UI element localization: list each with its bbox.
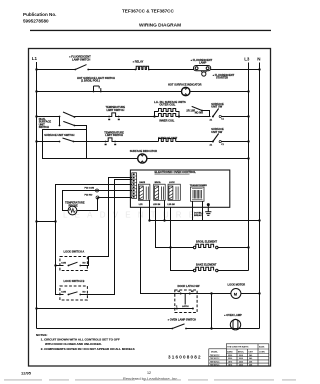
dual surface unit switch blade 2 (63, 121, 74, 125)
fluorescent starter (202, 72, 206, 76)
wire lock motor to N (241, 293, 260, 295)
lock switch B box (60, 286, 88, 300)
EOC relay 3 lock motor (168, 184, 180, 200)
svg-text:HOT SURFACE INDICATOR: HOT SURFACE INDICATOR (168, 82, 202, 86)
svg-text:240: 240 (249, 357, 252, 360)
wire EOC output broil feed (156, 207, 195, 247)
fluorescent lamp (194, 66, 211, 73)
temperature probe sensor (68, 206, 77, 215)
svg-text:5995278580: 5995278580 (23, 19, 49, 24)
svg-text:LOCK SWITCH A: LOCK SWITCH A (64, 249, 85, 253)
lock switch B blade (68, 292, 77, 295)
wire L1 tap (37, 221, 56, 223)
svg-text:LOCK SWITCH B: LOCK SWITCH B (64, 279, 85, 283)
svg-text:TEF367CC: TEF367CC (210, 355, 220, 357)
EOC relay 1 bake (138, 184, 150, 200)
svg-text:LOCK MOTOR: LOCK MOTOR (228, 283, 246, 287)
EOC transformer (191, 187, 205, 201)
spec table text (210, 345, 265, 366)
svg-text:2250: 2250 (239, 365, 243, 367)
svg-text:TRANSFORMER: TRANSFORMER (190, 184, 207, 187)
svg-text:Publication No.: Publication No. (23, 12, 56, 17)
svg-text:ELEM.: ELEM. (259, 346, 265, 348)
svg-text:COM: COM (61, 292, 66, 294)
neutral return wire (149, 220, 260, 222)
svg-text:2. COMPONENTS NOTED IN □ DO N: 2. COMPONENTS NOTED IN □ DO NOT APPEAR O… (41, 347, 135, 351)
svg-text:INNER COIL: INNER COIL (159, 118, 174, 122)
svg-text:UNIT SW: UNIT SW (211, 105, 223, 109)
svg-text:WIRING DIAGRAM: WIRING DIAGRAM (139, 23, 181, 29)
wire EOC output to door latch (141, 207, 180, 293)
chassis ground (205, 204, 211, 216)
svg-text:1. CIRCUIT SHOWN WITH ALL CON: 1. CIRCUIT SHOWN WITH ALL CONTROLS SET T… (41, 338, 120, 342)
svg-text:2500: 2500 (228, 355, 232, 357)
hot surface indicator (182, 87, 190, 95)
door latch switch bar (179, 294, 191, 305)
svg-text:208: 208 (249, 365, 252, 367)
wire probe feed from L1 tap (56, 185, 132, 222)
svg-text:(1 BROIL POS.): (1 BROIL POS.) (81, 79, 100, 83)
L1 bus wire (36, 62, 38, 329)
wire row2 right to L3 (190, 91, 248, 93)
svg-text:LAMP: LAMP (199, 60, 207, 64)
header rule (30, 30, 271, 31)
svg-text:WITH DOOR CLOSED AND UNLOCKED.: WITH DOOR CLOSED AND UNLOCKED. (45, 342, 102, 346)
surface unit switch row4 (63, 138, 106, 142)
surface unit switch box left (43, 130, 87, 159)
svg-text:SURFACE UNIT SWITCH: SURFACE UNIT SWITCH (44, 133, 74, 137)
svg-text:2250: 2250 (239, 361, 243, 363)
svg-text:240: 240 (249, 354, 252, 357)
bake element (193, 267, 248, 271)
transformer secondary drops (193, 201, 203, 220)
svg-text:N: N (257, 57, 260, 62)
svg-text:SURFACE UNIT: SURFACE UNIT (158, 136, 178, 140)
lock switch A box (60, 257, 88, 271)
svg-text:THE OVEN HTR WATTS: THE OVEN HTR WATTS (227, 345, 249, 348)
svg-text:SWITCH: SWITCH (39, 125, 49, 129)
svg-text:MODEL: MODEL (211, 351, 219, 353)
hot surface light switch (94, 86, 101, 92)
wire EOC output neutral 2 (164, 200, 166, 220)
svg-text:BAKE ELEMENT: BAKE ELEMENT (196, 263, 217, 267)
oven lamp switch (172, 324, 259, 329)
wire row5 right to L3 (147, 158, 248, 160)
temperature limit switch row4 (105, 138, 117, 145)
wire EOC output bake feed (171, 207, 195, 270)
svg-text:1875: 1875 (228, 361, 232, 363)
svg-text:L1: L1 (32, 56, 38, 61)
temperature limit switch row3 (108, 113, 120, 120)
svg-text:316008082: 316008082 (168, 355, 202, 360)
svg-text:BROIL: BROIL (238, 352, 245, 354)
svg-text:ELECTRONIC OVEN CONTROL: ELECTRONIC OVEN CONTROL (155, 170, 197, 174)
oven lamp (230, 319, 240, 330)
wire EOC output neutral 1 (149, 200, 151, 220)
wire EOC input A from lock switch A (80, 178, 132, 266)
surface unit switch row3 right (213, 109, 249, 117)
svg-text:2500: 2500 (228, 358, 232, 360)
svg-text:BAKE: BAKE (139, 181, 145, 184)
bus A door latch feed (37, 308, 193, 310)
svg-text:208: 208 (249, 361, 252, 363)
svg-text:L3: L3 (244, 57, 250, 62)
svg-text:L1R: L1R (139, 204, 143, 206)
svg-text:3000: 3000 (239, 358, 243, 360)
surface unit switch row4 right (213, 134, 249, 142)
svg-text:LEADVENTURE: LEADVENTURE (63, 211, 201, 220)
wire row1 right to N (211, 69, 260, 71)
svg-text:UNIT SW: UNIT SW (211, 130, 223, 134)
relay R coil (135, 66, 193, 69)
svg-text:DOOR LATCH SW: DOOR LATCH SW (178, 284, 201, 288)
svg-text:NO NR: NO NR (195, 111, 203, 115)
coil selector switch row3 (192, 106, 210, 116)
svg-text:TEF387CC: TEF387CC (210, 365, 220, 367)
notes text (36, 333, 135, 351)
svg-text:CONN: CONN (259, 352, 265, 354)
wire row3 left (37, 116, 60, 118)
footer rule (4, 379, 296, 381)
surface unit inner coil row3 (159, 114, 211, 117)
surface unit outer coil row3 (155, 109, 180, 117)
wire surface indicator tap (75, 126, 87, 159)
svg-text:1875: 1875 (228, 365, 232, 367)
EOC relay 2 broil (154, 184, 166, 200)
svg-text:3000: 3000 (239, 355, 243, 357)
svg-text:BROIL ELEMENT: BROIL ELEMENT (196, 239, 218, 243)
svg-text:12/95: 12/95 (21, 371, 32, 376)
svg-text:LAMP SWITCH: LAMP SWITCH (72, 57, 90, 61)
wire row5 surface indicator feed (87, 158, 138, 160)
electronic oven control box (130, 170, 229, 207)
svg-text:SURFACE INDICATOR: SURFACE INDICATOR (130, 149, 157, 153)
wire EOC input B from lock switch B (80, 180, 132, 295)
probe terminals (96, 189, 100, 199)
svg-text:NOTES:: NOTES: (36, 333, 47, 337)
lock switch A blade (68, 262, 77, 265)
svg-text:LATCH: LATCH (182, 305, 189, 308)
diagram frame (29, 49, 271, 367)
door latch switch box (175, 290, 197, 313)
svg-text:STARTER: STARTER (216, 76, 228, 80)
svg-text:OUTER COIL: OUTER COIL (159, 103, 175, 107)
spec table (209, 344, 269, 366)
svg-text:TEF367CC: TEF367CC (210, 361, 220, 363)
switch contact dots (74, 69, 76, 71)
svg-text:NO: NO (83, 263, 86, 265)
lock motor (231, 289, 241, 299)
svg-text:COM: COM (61, 263, 66, 265)
svg-text:L2R-1M: L2R-1M (153, 204, 161, 206)
svg-text:P33 COM: P33 COM (85, 188, 95, 190)
N bus wire (259, 63, 261, 329)
svg-text:LOCK: LOCK (169, 182, 175, 184)
svg-text:L2R-2M: L2R-2M (167, 204, 175, 206)
wire row3 to coils (119, 116, 159, 118)
svg-text:NO: NO (83, 292, 86, 294)
lamp bus wire (37, 328, 173, 330)
wire row2 mid (94, 91, 182, 93)
wire row3 mid (75, 116, 110, 118)
svg-text:LIMIT SWITCH: LIMIT SWITCH (107, 108, 125, 112)
svg-text:● RELAY: ● RELAY (133, 59, 144, 63)
temperature probe loop upper (63, 191, 132, 211)
wire latch branch down (211, 294, 213, 329)
svg-text:12: 12 (147, 371, 151, 375)
svg-text:BAKE: BAKE (227, 351, 233, 354)
dual surface unit switch pole link (59, 117, 61, 126)
header publication number (23, 12, 56, 24)
svg-text:PROBE: PROBE (69, 203, 78, 207)
wire row1 left (37, 69, 76, 71)
wire row4 left (37, 141, 60, 143)
broil element (193, 244, 248, 248)
lock switch A tap (56, 265, 64, 267)
temperature probe loop lower (77, 198, 132, 211)
L3 bus wire (248, 63, 250, 271)
svg-text:LIMIT SWITCH: LIMIT SWITCH (105, 133, 123, 137)
wire latch to lock motor (190, 293, 231, 295)
lock switch feed wire (56, 222, 64, 295)
svg-text:TEF367CC & TEF387CC: TEF367CC & TEF387CC (122, 9, 175, 14)
tiny labels layer (39, 55, 246, 322)
svg-text:BREAK: BREAK (194, 214, 202, 217)
surface indicator (138, 154, 147, 163)
dual surface unit switch blade 1 (63, 112, 75, 117)
svg-text:● OVEN LAMP: ● OVEN LAMP (224, 313, 242, 317)
svg-text:TEF387CC: TEF387CC (210, 358, 220, 360)
svg-text:P33 NO: P33 NO (85, 195, 93, 197)
svg-text:● OVEN LAMP SWITCH: ● OVEN LAMP SWITCH (168, 317, 197, 321)
svg-text:BROIL: BROIL (155, 182, 162, 184)
wire row4 mid (115, 141, 158, 143)
fluorescent lamp switch (75, 65, 135, 70)
EOC terminal strip (132, 173, 137, 199)
wire row2 left (37, 91, 94, 93)
surface unit coil row4 (159, 139, 213, 142)
